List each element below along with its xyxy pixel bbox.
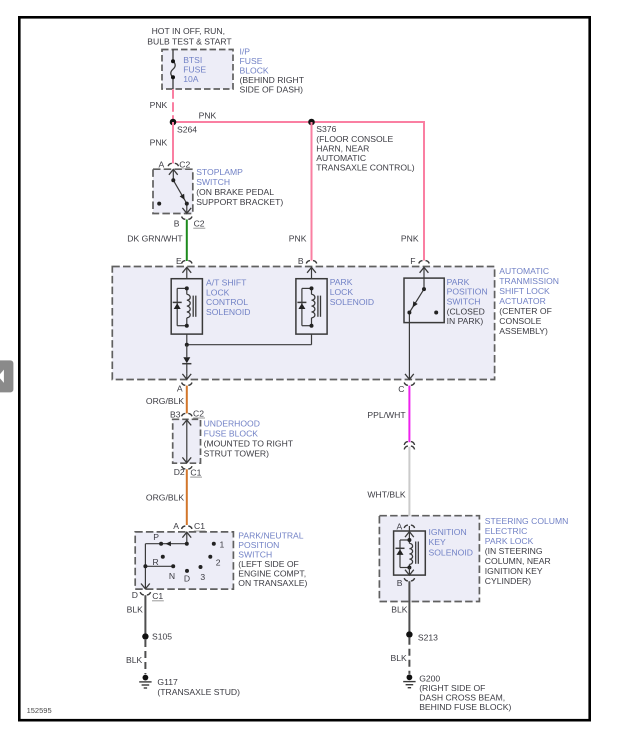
svg-text:STRUT TOWER): STRUT TOWER) [204,448,270,458]
svg-text:D2: D2 [174,467,185,477]
svg-text:WHT/BLK: WHT/BLK [367,490,405,500]
svg-text:BLOCK: BLOCK [240,66,269,76]
a/t shift lock control solenoid label [206,278,250,317]
svg-text:F: F [410,256,415,266]
svg-text:ACTUATOR: ACTUATOR [499,296,545,306]
svg-text:SHIFT LOCK: SHIFT LOCK [499,286,550,296]
svg-text:SOLENOID: SOLENOID [429,548,473,558]
svg-text:G200: G200 [419,674,440,684]
svg-text:PNK: PNK [150,137,168,147]
svg-text:ON TRANSAXLE): ON TRANSAXLE) [238,578,307,588]
svg-text:PARK/NEUTRAL: PARK/NEUTRAL [238,530,303,540]
svg-text:DASH CROSS BEAM,: DASH CROSS BEAM, [419,693,505,703]
svg-text:1: 1 [220,539,225,549]
actuator pin F [410,256,429,278]
svg-text:SWITCH: SWITCH [447,297,481,307]
svg-text:POSITION: POSITION [238,540,279,550]
underhood fuse block pin B3 connector C2 [170,408,205,419]
svg-text:PNK: PNK [289,233,307,243]
park/neutral gear position labels [153,532,225,584]
svg-text:HARN, NEAR: HARN, NEAR [316,144,369,154]
ignition pin B [397,578,415,588]
svg-text:(CENTER OF: (CENTER OF [499,306,552,316]
svg-text:TRANSAXLE CONTROL): TRANSAXLE CONTROL) [316,163,415,173]
svg-text:PNK: PNK [199,110,217,120]
svg-text:(ON BRAKE PEDAL: (ON BRAKE PEDAL [196,187,274,197]
node S376 [308,119,415,173]
svg-text:ENGINE COMPT,: ENGINE COMPT, [238,568,306,578]
svg-text:G117: G117 [157,677,178,687]
steering column electric park lock box [379,516,479,602]
park/neutral position switch box [135,532,233,589]
node S105 [142,632,172,642]
left side collapse tab [0,360,13,392]
svg-text:BLK: BLK [391,653,408,663]
ignition pin A [397,521,415,531]
wire BLK park/neutral D to S105 [127,595,146,633]
svg-text:CYLINDER): CYLINDER) [485,576,531,586]
node S213 [406,631,438,642]
svg-text:HOT IN OFF, RUN,: HOT IN OFF, RUN, [152,26,225,36]
svg-text:KEY: KEY [429,537,446,547]
diagram number 152595 [27,706,52,715]
svg-text:N: N [169,571,175,581]
actuator pin C [398,374,414,394]
wire PNK corner down to actuator pin F [401,121,424,261]
svg-text:E: E [176,256,182,266]
svg-text:ORG/BLK: ORG/BLK [146,493,184,503]
steering column electric park lock label [485,516,569,586]
svg-text:P: P [153,532,159,542]
I/P fuse block box [162,50,233,90]
fuse BTSI 10A symbol [171,50,175,90]
ignition key solenoid label [429,527,473,558]
svg-text:IGNITION KEY: IGNITION KEY [485,566,543,576]
svg-text:SWITCH: SWITCH [196,177,230,187]
svg-text:PARK: PARK [447,277,470,287]
ground G117 [139,675,240,697]
svg-text:C1: C1 [190,467,201,477]
svg-text:SWITCH: SWITCH [238,549,272,559]
feed label HOT IN OFF RUN BULB TEST AND START [147,26,232,47]
svg-text:BLK: BLK [126,655,143,665]
svg-text:LOCK: LOCK [330,287,354,297]
svg-text:BULB TEST & START: BULB TEST & START [147,37,232,47]
svg-text:A: A [397,521,403,531]
svg-text:PPL/WHT: PPL/WHT [367,410,406,420]
svg-text:PNK: PNK [401,233,419,243]
svg-text:(BEHIND RIGHT: (BEHIND RIGHT [240,75,305,85]
wire BLK ignition B to S213 [391,581,409,631]
underhood fuse block label [204,418,294,458]
actuator pin E [176,256,192,279]
svg-text:SUPPORT BRACKET): SUPPORT BRACKET) [196,197,283,207]
svg-text:2: 2 [216,558,221,568]
svg-text:SOLENOID: SOLENOID [330,297,374,307]
svg-text:152595: 152595 [27,706,52,715]
svg-text:S264: S264 [177,124,197,134]
svg-text:B: B [174,219,180,229]
svg-text:BEHIND FUSE BLOCK): BEHIND FUSE BLOCK) [419,702,511,712]
svg-text:ASSEMBLY): ASSEMBLY) [499,326,548,336]
park position switch label [447,277,488,326]
wire BLK dashed S105 to G117 [126,640,145,674]
svg-text:A: A [173,521,179,531]
park position switch contacts [407,278,438,379]
park/neutral position switch label [238,530,307,588]
svg-text:PARK LOCK: PARK LOCK [485,536,534,546]
svg-text:A: A [177,384,183,394]
wire DK GRN/WHT stoplamp B to actuator pin E [127,220,187,262]
actuator pin A [177,374,192,394]
fuse value label BTSI FUSE 10A [183,55,206,84]
inline connector in park lock circuit [404,442,414,450]
park/neutral pin A connector C1 [173,521,205,531]
svg-text:(LEFT SIDE OF: (LEFT SIDE OF [238,559,298,569]
svg-text:I/P: I/P [240,47,251,57]
svg-text:ELECTRIC: ELECTRIC [485,526,528,536]
svg-text:(TRANSAXLE STUD): (TRANSAXLE STUD) [157,687,240,697]
park/neutral pin D connector C1 [132,590,164,601]
wire PNK S376 down to actuator pin B [289,122,312,261]
svg-text:PARK: PARK [330,277,353,287]
svg-text:10A: 10A [183,74,199,84]
svg-text:(CLOSED: (CLOSED [447,306,485,316]
svg-text:BLK: BLK [127,605,144,615]
svg-text:(RIGHT SIDE OF: (RIGHT SIDE OF [419,683,485,693]
svg-text:C1: C1 [194,521,205,531]
svg-text:IN PARK): IN PARK) [447,316,484,326]
wire WHT/BLK inline connector to ignition key solenoid [367,447,409,525]
svg-text:PNK: PNK [150,100,168,110]
svg-text:STOPLAMP: STOPLAMP [196,167,243,177]
svg-text:AUTOMATIC: AUTOMATIC [316,153,366,163]
wire PNK dashed from fuse to S264 [150,89,173,119]
svg-text:A: A [159,159,165,169]
svg-text:R: R [153,557,159,567]
svg-text:B3: B3 [170,409,181,419]
svg-text:CONTROL: CONTROL [206,297,248,307]
svg-text:UNDERHOOD: UNDERHOOD [204,418,260,428]
svg-text:S213: S213 [418,632,438,642]
svg-text:TRANMISSION: TRANMISSION [499,276,559,286]
park position switch box [404,278,444,323]
stoplamp switch name label [196,167,283,207]
svg-text:C2: C2 [193,408,204,418]
stoplamp switch contacts and blade [157,169,191,213]
svg-text:CONSOLE: CONSOLE [499,316,541,326]
svg-text:FUSE: FUSE [240,56,263,66]
actuator pin B [298,256,317,279]
svg-text:BTSI: BTSI [183,55,202,65]
junction node below A/T solenoid [185,334,312,347]
a/t shift lock control solenoid L1 [171,279,202,334]
svg-text:BLK: BLK [391,604,408,614]
svg-text:C: C [398,384,404,394]
svg-text:B: B [298,256,304,266]
automatic transmission shift lock actuator box [112,267,494,380]
svg-text:C1: C1 [152,591,163,601]
wire PNK S264 down to stoplamp switch pin A [150,122,173,163]
wire ORG/BLK pin A to underhood fuse block [146,386,187,414]
svg-text:SIDE OF DASH): SIDE OF DASH) [240,85,304,95]
park lock solenoid L2 [296,279,327,334]
park/neutral switch wiper and contacts [141,532,216,589]
actuator name label [499,266,559,336]
svg-text:ORG/BLK: ORG/BLK [146,396,184,406]
svg-text:AUTOMATIC: AUTOMATIC [499,266,549,276]
svg-text:POSITION: POSITION [447,287,488,297]
svg-text:S376: S376 [316,124,336,134]
ground G200 [403,674,511,713]
svg-text:(IN STEERING: (IN STEERING [485,546,543,556]
svg-text:(FLOOR CONSOLE: (FLOOR CONSOLE [316,134,393,144]
node S264 [170,119,198,135]
svg-text:D: D [132,590,138,600]
diode CR1 in series to pin A [182,345,191,374]
svg-text:DK GRN/WHT: DK GRN/WHT [127,233,183,243]
underhood fuse block internal link [182,420,191,463]
svg-text:3: 3 [200,572,205,582]
svg-text:C2: C2 [194,219,205,229]
svg-text:LOCK: LOCK [206,287,230,297]
ignition key solenoid L3 [394,531,426,575]
wire BLK dashed S213 to G200 [391,638,410,674]
svg-text:FUSE BLOCK: FUSE BLOCK [204,428,259,438]
I/P fuse block name label [240,47,305,95]
stoplamp switch box [153,169,193,213]
svg-text:C2: C2 [179,159,190,169]
svg-text:SOLENOID: SOLENOID [206,307,250,317]
wire PNK horizontal S264 to S376 to F corner [173,110,424,122]
underhood fuse block pin D2 connector C1 [174,466,202,477]
svg-text:B: B [397,578,403,588]
stoplamp pin B connector C2 [174,217,206,229]
wire ORG/BLK fuse block to park/neutral switch [146,469,187,525]
svg-text:D: D [184,574,190,584]
svg-text:COLUMN, NEAR: COLUMN, NEAR [485,556,551,566]
park lock solenoid label [330,277,374,307]
svg-text:IGNITION: IGNITION [429,527,467,537]
svg-text:(MOUNTED TO RIGHT: (MOUNTED TO RIGHT [204,438,294,448]
svg-text:A/T SHIFT: A/T SHIFT [206,278,247,288]
svg-text:STEERING COLUMN: STEERING COLUMN [485,516,569,526]
wire PPL/WHT pin C to inline connector [367,386,409,443]
underhood fuse block box [173,419,201,463]
stoplamp pin A connector C2 [159,159,192,169]
svg-text:S105: S105 [152,632,172,642]
